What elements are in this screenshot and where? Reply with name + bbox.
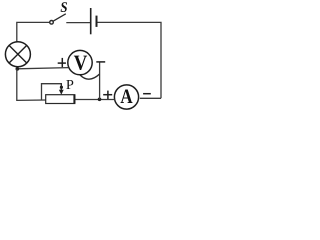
wire: voltmeter bottom curved lead <box>80 74 99 79</box>
switch S blade <box>53 14 66 21</box>
rheostat P body rectangle <box>46 95 75 104</box>
voltmeter V letter <box>74 56 87 70</box>
wire switch to battery <box>66 22 90 24</box>
wire: battery to top-right corner and right side down <box>97 22 161 98</box>
voltmeter "+" terminal label <box>58 62 66 64</box>
rheostat label P <box>66 80 73 89</box>
wire: voltmeter right terminal drop <box>99 62 101 99</box>
rheostat right terminal thick edge <box>73 95 75 104</box>
node: wiper lead junction dot <box>60 86 63 89</box>
wire: left side down and bottom-left segment <box>17 69 46 100</box>
rheostat wiper lead <box>60 84 62 91</box>
ammeter A body circle <box>114 85 138 109</box>
voltmeter "-" terminal label <box>96 61 105 63</box>
switch label S <box>61 2 67 12</box>
wire voltmeter left to lamp junction <box>17 68 68 69</box>
wire ammeter right stub <box>140 97 161 99</box>
lamp X cross <box>9 46 26 63</box>
rheostat wiper arrowhead <box>59 90 64 95</box>
ammeter A letter <box>121 90 133 103</box>
battery cell: long positive plate <box>90 8 92 34</box>
wire: left riser and top-left segment to switch <box>17 22 50 41</box>
battery cell: short negative plate <box>96 16 98 27</box>
ammeter "+" terminal label <box>103 94 112 96</box>
lamp L body circle <box>5 42 30 67</box>
wire bottom: rheostat right to ammeter left <box>75 99 115 101</box>
wire: branch from bottom wire up to rheostat wiper <box>42 84 63 100</box>
switch S pivot circle <box>50 21 54 25</box>
voltmeter V body circle <box>68 50 92 74</box>
node: voltmeter branch / bottom wire junction dot <box>98 98 102 102</box>
ammeter "-" terminal label <box>143 93 151 95</box>
node: lamp / voltmeter tap junction dot <box>15 67 19 71</box>
